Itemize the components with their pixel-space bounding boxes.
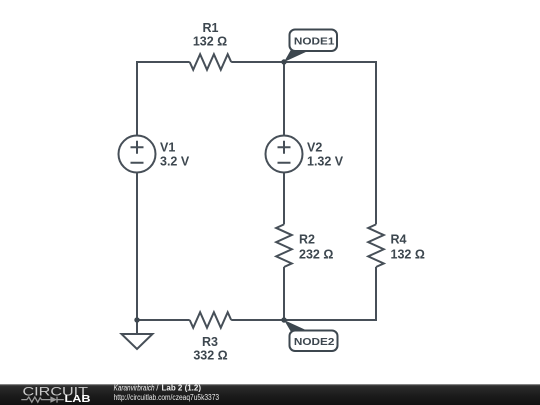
node junction dot NODE2	[281, 317, 286, 322]
wire top right segment	[231, 62, 376, 224]
svg-text:LAB: LAB	[65, 394, 91, 405]
node A label NODE1	[284, 30, 337, 63]
node junction dot NODE1	[281, 59, 286, 64]
wire middle vertical upper	[283, 62, 285, 136]
svg-text:332 Ω: 332 Ω	[193, 349, 227, 363]
svg-text:R3: R3	[202, 335, 218, 349]
svg-text:R2: R2	[299, 233, 315, 247]
logo resistor-diode icon	[21, 397, 64, 403]
voltage source V1	[119, 136, 156, 173]
svg-text:232 Ω: 232 Ω	[299, 248, 333, 262]
svg-text:3.2 V: 3.2 V	[160, 155, 190, 169]
svg-text:V2: V2	[307, 141, 322, 155]
svg-text:Karanvirbraich: Karanvirbraich	[114, 383, 155, 392]
svg-text:http://circuitlab.com/czeaq7u5: http://circuitlab.com/czeaq7u5k3373	[114, 393, 220, 402]
wire left vertical lower	[137, 173, 190, 321]
wire middle vertical lower	[283, 267, 285, 320]
svg-text:R4: R4	[391, 233, 407, 247]
ground	[122, 320, 153, 349]
svg-text:132 Ω: 132 Ω	[391, 248, 425, 262]
node B label NODE2	[284, 320, 338, 351]
svg-text:R1: R1	[203, 21, 219, 35]
svg-text:Lab 2 (1.2): Lab 2 (1.2)	[162, 383, 202, 392]
resistor R4	[368, 224, 384, 267]
voltage source V2	[266, 136, 303, 173]
wire middle between V2 and R2	[283, 173, 285, 225]
resistor R1	[190, 54, 232, 70]
svg-text:NODE1: NODE1	[294, 36, 335, 48]
wire top left segment	[137, 62, 190, 136]
svg-text:132 Ω: 132 Ω	[193, 35, 227, 49]
resistor R2	[276, 224, 292, 267]
svg-text:NODE2: NODE2	[294, 336, 335, 348]
svg-text:V1: V1	[160, 141, 175, 155]
junction dot ground	[134, 317, 139, 322]
resistor R3	[190, 312, 232, 328]
wire right vertical lower	[231, 267, 376, 320]
svg-text:1.32 V: 1.32 V	[307, 155, 344, 169]
